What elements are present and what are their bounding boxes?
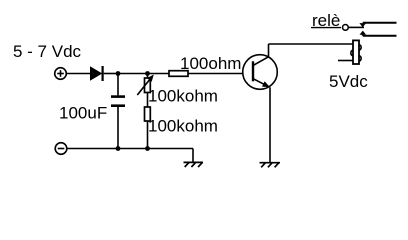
terminal + (positive input) (55, 68, 67, 80)
transistor Q1 (243, 55, 278, 90)
node D (junction dot, R2 to bottom rail) (145, 146, 150, 151)
relay coil K1 (351, 40, 361, 64)
node A (junction dot, cap branch) (116, 71, 121, 76)
wire bottom rail corner down (192, 149, 194, 163)
wire R1 to transistor base (188, 73, 243, 75)
wire diode to node A (104, 73, 118, 75)
ground (emitter) (260, 163, 281, 168)
resistor R1 100ohm (169, 71, 188, 77)
potentiometer P1 100kohm (137, 74, 154, 96)
relay contact NC arrow (top throw) (359, 23, 366, 27)
wire collector to relay coil (269, 43, 354, 45)
relay contact NO arrow (bottom throw) (360, 31, 367, 35)
svg-text:100ohm: 100ohm (180, 54, 241, 73)
ground (bottom rail) (184, 162, 204, 167)
wire top throw (363, 22, 397, 24)
wire bottom rail (67, 148, 193, 150)
svg-text:100uF: 100uF (59, 104, 107, 123)
diode D1 (90, 66, 103, 81)
wire common contact (348, 26, 364, 28)
underline of relè (311, 27, 341, 29)
wire coil bottom stub to 5Vdc (338, 60, 353, 62)
wire R2 to bottom rail (147, 121, 149, 149)
wire emitter riser (269, 87, 271, 162)
svg-text:100kohm: 100kohm (148, 87, 218, 106)
wire collector riser (268, 44, 270, 57)
resistor R2 100kohm (145, 107, 151, 121)
wire bottom throw (363, 35, 397, 36)
wire potentiometer to resistor R2 (147, 93, 149, 108)
node C (junction dot, cap to bottom rail) (116, 146, 121, 151)
capacitor C1 100uF (111, 74, 125, 149)
svg-text:100kohm: 100kohm (148, 117, 218, 136)
svg-text:5 - 7 Vdc: 5 - 7 Vdc (13, 42, 82, 61)
wire node B to resistor R1 (148, 73, 170, 75)
node B (junction dot, pot branch) (145, 71, 150, 76)
relay contact common (circle) (343, 25, 349, 31)
svg-text:5Vdc: 5Vdc (329, 72, 368, 91)
wire node A to node B (118, 73, 148, 75)
wire + terminal to diode (66, 73, 90, 75)
terminal - (negative input) (55, 143, 67, 155)
